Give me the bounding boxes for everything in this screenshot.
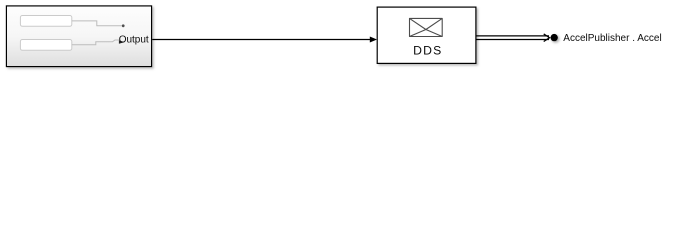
svg-text:Output: Output [119, 35, 149, 46]
svg-text:DDS: DDS [413, 43, 442, 57]
svg-text:AccelPublisher . Accel: AccelPublisher . Accel [563, 33, 661, 44]
